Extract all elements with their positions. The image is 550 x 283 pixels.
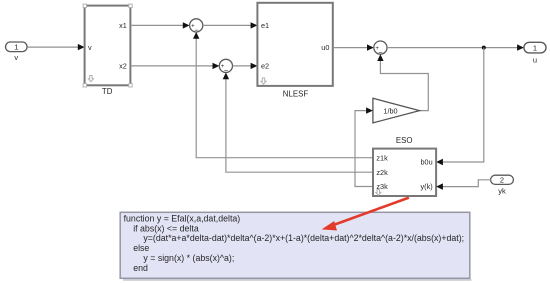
svg-text:u: u	[533, 55, 537, 64]
block ESO	[373, 136, 436, 196]
svg-text:if abs(x) <= delta: if abs(x) <= delta	[133, 223, 199, 233]
sum junction S2	[219, 59, 232, 75]
output port 1 (u)	[524, 42, 546, 64]
svg-text:y(k): y(k)	[421, 182, 433, 191]
svg-text:end: end	[133, 263, 148, 273]
wire ESO z3k to gain input	[355, 107, 373, 186]
svg-text:u0: u0	[321, 43, 329, 52]
wire port2 to ESO y(k)	[436, 180, 491, 190]
input port 1 (v)	[6, 42, 28, 62]
svg-text:z1k: z1k	[376, 153, 388, 162]
sum junction S3	[374, 41, 387, 57]
block TD	[85, 6, 131, 96]
input port 2 (yk)	[491, 175, 514, 196]
svg-text:y = sign(x) * (abs(x)^a);: y = sign(x) * (abs(x)^a);	[143, 253, 234, 263]
svg-text:e2: e2	[261, 61, 269, 70]
svg-text:else: else	[133, 243, 149, 253]
red annotation arrow	[322, 198, 409, 231]
junction node dot	[482, 46, 486, 50]
wire sum2 to NLESF e2	[233, 63, 258, 69]
TD selection handles	[83, 4, 132, 87]
wire NLESF u0 to sum3	[333, 44, 374, 50]
wire junction to ESO b0u	[436, 48, 484, 166]
ESO badge icon	[376, 190, 381, 196]
wire sum1 to NLESF e1	[203, 22, 258, 28]
wire sum3 to output port u with junction	[387, 44, 524, 50]
svg-text:ESO: ESO	[396, 136, 413, 145]
svg-text:function y = Efal(x,a,dat,delt: function y = Efal(x,a,dat,delta)	[124, 213, 241, 223]
svg-text:x1: x1	[119, 21, 127, 30]
wire ESO z2k to sum2 minus	[223, 73, 373, 173]
svg-text:TD: TD	[102, 87, 113, 96]
svg-text:v: v	[14, 53, 18, 62]
annotation code box	[120, 212, 471, 280]
wire ESO z1k to sum1 minus	[193, 32, 373, 158]
gain 1/b0	[373, 98, 420, 123]
wire gain output to sum3 minus	[377, 54, 428, 110]
svg-text:2: 2	[500, 176, 504, 185]
svg-text:y=(dat*a+a*delta-dat)*delta^(a: y=(dat*a+a*delta-dat)*delta^(a-2)*x+(1-a…	[143, 233, 464, 243]
svg-text:1: 1	[533, 43, 537, 52]
wire TD x2 to sum2	[130, 63, 219, 69]
wire TD x1 to sum1	[130, 22, 189, 28]
svg-text:x2: x2	[119, 61, 127, 70]
svg-text:v: v	[88, 43, 92, 52]
svg-text:z2k: z2k	[376, 168, 388, 177]
NLESF badge icon	[261, 78, 266, 84]
svg-text:1: 1	[14, 43, 18, 52]
TD badge icon	[88, 76, 93, 82]
svg-text:yk: yk	[498, 187, 506, 196]
block NLESF	[257, 3, 332, 99]
svg-text:NLESF: NLESF	[283, 90, 309, 99]
svg-text:e1: e1	[261, 21, 269, 30]
wire port1 to TD	[27, 44, 85, 50]
sum junction S1	[190, 19, 203, 35]
svg-text:1/b0: 1/b0	[383, 106, 397, 115]
svg-text:b0u: b0u	[421, 158, 433, 167]
